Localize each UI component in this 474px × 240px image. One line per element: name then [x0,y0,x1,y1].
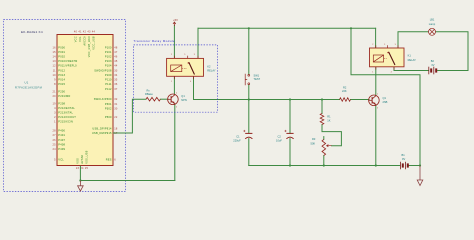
power +5V symbol [173,22,176,26]
wire SW1 column: top rail to switch and to C1 and bottom rail [248,28,250,74]
svg-text:B1: B1 [402,153,406,157]
svg-text:2: 2 [377,94,378,96]
wire top rail down into relay K1 coil+ [375,28,377,48]
svg-text:11: 11 [53,68,56,72]
IC U1 bottom power pins VSS AVSS0 VSS_USB [76,150,89,170]
svg-text:P100: P100 [105,45,112,49]
svg-text:3: 3 [194,54,195,56]
svg-text:25: 25 [53,142,57,146]
svg-text:25: 25 [85,166,89,170]
svg-text:24: 24 [80,166,84,170]
svg-text:P301: P301 [105,102,112,106]
svg-text:22: 22 [114,115,118,119]
svg-text:VSS_USB: VSS_USB [85,150,89,163]
potentiometer R3 50K [322,140,326,156]
svg-text:40: 40 [74,30,78,34]
svg-text:37: 37 [114,87,118,91]
wire C2 column [289,100,291,134]
svg-text:R7FA2E1A92DFM: R7FA2E1A92DFM [15,86,42,90]
svg-text:1: 1 [171,81,172,83]
resistor Rx RBase [146,97,160,101]
IC U1 R7FA2E1A92DFM body [57,35,113,166]
svg-text:SW1: SW1 [254,74,260,78]
svg-text:18: 18 [114,126,118,130]
wire B2 left to relay K1 NO contact [394,67,428,71]
relay K1 pin numbers [372,44,395,74]
svg-text:VCC_USB_LDO: VCC_USB_LDO [87,36,91,57]
svg-text:44: 44 [114,64,118,68]
svg-text:P002: P002 [58,55,65,59]
svg-text:5: 5 [384,44,385,46]
svg-text:P104: P104 [105,64,112,68]
svg-text:2SB: 2SB [383,100,388,104]
svg-text:VCC: VCC [74,36,78,42]
svg-text:47: 47 [114,50,118,54]
node ground junction at MCU [79,179,81,181]
svg-text:23: 23 [76,166,80,170]
svg-text:AVSS0: AVSS0 [80,154,84,163]
svg-text:14: 14 [53,55,57,59]
svg-text:R2: R2 [343,86,347,90]
svg-text:5: 5 [184,54,185,56]
svg-text:P400: P400 [58,129,65,133]
wire pot R3 top stub [323,137,325,140]
svg-text:P201/MD: P201/MD [58,94,70,98]
svg-text:P407: P407 [58,138,65,142]
svg-text:P212/EXTAL: P212/EXTAL [58,106,75,110]
svg-text:P012: P012 [58,68,65,72]
svg-text:P000: P000 [58,45,65,49]
svg-text:P110: P110 [105,78,112,82]
wire top +V rail [198,27,376,29]
module box EK-RA2E1 kit [4,20,126,192]
resistor R2 22K [340,98,351,102]
svg-text:P208: P208 [58,101,65,105]
battery B2 3V [428,67,430,75]
node junction rail/B1/ground [419,164,421,166]
IC U1 top power pins VCC AVCC0 VCC_USB_LDO VCC_USB [74,30,96,58]
svg-text:P409: P409 [58,147,65,151]
IC U1 right pin names and numbers [92,45,118,161]
svg-text:45: 45 [114,59,118,63]
svg-text:Q1: Q1 [181,94,185,98]
svg-text:30: 30 [114,106,118,110]
svg-text:TEST: TEST [254,77,261,81]
svg-text:VSS: VSS [76,158,80,164]
wire Q2 emitter up to relay K1 coil- [375,67,377,96]
svg-text:P500: P500 [105,115,112,119]
svg-text:P111: P111 [105,82,112,86]
svg-text:22K: 22K [342,89,347,93]
svg-text:VCL: VCL [78,36,82,42]
svg-text:20: 20 [53,94,57,98]
svg-text:16: 16 [53,45,57,49]
svg-text:P109: P109 [105,73,112,77]
relay K1 [370,48,405,67]
wire Q1 emitter down [174,105,176,181]
wire R1 bottom to pot wiper [322,125,341,146]
wire battery branch: top rail down, right, down to rail [351,28,420,165]
svg-text:B2: B2 [431,59,435,63]
wire pot R3 bottom to rail [323,156,325,166]
svg-text:220uF: 220uF [233,138,241,142]
svg-text:15: 15 [53,50,57,54]
svg-text:24: 24 [53,147,57,151]
wire R1 branch down from control net [321,100,323,114]
svg-text:P010/VREFH0: P010/VREFH0 [58,59,77,63]
node junction control net / R1 branch [321,98,323,100]
svg-text:43: 43 [87,30,91,34]
switch SW1 TEST push button [245,74,250,85]
svg-text:10: 10 [53,73,57,77]
svg-text:41: 41 [78,30,82,34]
wire Q2 collector down to rail [375,105,377,165]
svg-text:RELAY: RELAY [207,69,216,73]
svg-text:SWDIO/P108: SWDIO/P108 [94,68,112,72]
svg-text:P213/XTAL: P213/XTAL [58,111,73,115]
svg-text:C2: C2 [278,135,282,139]
svg-text:NPN: NPN [181,98,187,102]
svg-text:4: 4 [190,81,191,83]
svg-text:21: 21 [53,89,57,93]
svg-text:1: 1 [372,71,373,73]
svg-text:4: 4 [391,71,392,73]
svg-text:50K: 50K [311,141,316,145]
svg-text:35: 35 [114,78,118,82]
svg-text:LB1: LB1 [430,17,435,21]
svg-text:P408: P408 [58,142,65,146]
svg-text:3: 3 [395,44,396,46]
svg-text:3: 3 [377,108,378,110]
svg-text:P103: P103 [105,59,112,63]
svg-text:P112: P112 [105,87,112,91]
svg-text:RBase: RBase [145,92,153,96]
svg-text:31: 31 [114,102,118,106]
svg-text:10uF: 10uF [276,138,282,142]
wire +5V to relay K2 coil pin [173,26,175,59]
node junction rail/R3 [323,164,325,166]
node junction control net / SW1 column [248,98,250,100]
svg-text:19: 19 [53,101,57,105]
wire MCU ground net: VSS pins down to junction and right to Q1 emitter [80,166,174,180]
svg-text:C1: C1 [236,135,240,139]
svg-text:EK-RA2E1 Kit: EK-RA2E1 Kit [21,30,43,34]
svg-text:AVCC0: AVCC0 [83,36,87,46]
svg-text:P015: P015 [58,82,65,86]
lamp LB1 [429,28,436,35]
svg-text:9V: 9V [402,157,405,161]
svg-text:P401: P401 [58,133,65,137]
svg-text:26: 26 [53,138,57,142]
wire relay K1 common up and right to lamp [398,32,428,48]
wire relay K2 NO contact down and right (control net) [194,76,340,99]
svg-text:P014: P014 [58,78,65,82]
svg-text:R1: R1 [327,114,331,118]
svg-text:3V: 3V [431,63,434,67]
svg-text:P102: P102 [105,55,112,59]
svg-text:K1: K1 [408,53,412,57]
svg-text:P001: P001 [58,50,65,54]
node junction control net / C2 column [289,98,291,100]
transistor Q2 2SB [369,95,380,106]
capacitor C1 220uF [245,132,252,134]
node junction battery branch top [350,27,352,29]
svg-text:2: 2 [372,44,373,46]
relay K2 pin numbers [171,54,195,83]
svg-text:USB_DP/P914: USB_DP/P914 [92,126,112,130]
svg-text:R3: R3 [312,137,316,141]
wire MCU pin P915 to base resistor [113,99,146,133]
svg-text:USB_DM/P915: USB_DM/P915 [92,131,112,135]
ground symbol below MCU [78,181,84,192]
ground symbol bottom right [417,166,423,186]
svg-text:P214/XCOUT: P214/XCOUT [58,115,76,119]
wire RBase to Q1 base [160,98,168,100]
svg-text:P101: P101 [105,50,112,54]
node junction SW1 top [248,27,250,29]
wire relay K2 common pin up to top rail [197,28,199,58]
svg-text:Q1: Q1 [383,96,387,100]
svg-text:28: 28 [53,129,57,133]
svg-text:RELAY: RELAY [408,58,417,62]
svg-text:SWCLK/P300: SWCLK/P300 [94,97,112,101]
transistor Q1 pin marks [176,93,177,109]
svg-text:VCC_USB: VCC_USB [92,36,96,50]
svg-text:34: 34 [114,73,118,77]
wire bottom ground rail [249,165,400,167]
svg-text:P013: P013 [58,73,65,77]
resistor R1 1K [320,114,324,125]
svg-text:U1: U1 [25,81,29,85]
battery B1 9V [399,162,401,170]
svg-text:36: 36 [114,82,118,86]
svg-text:RES: RES [106,157,112,161]
svg-text:Transistor Relay Module: Transistor Relay Module [134,39,176,43]
node junction rail/C2 [289,164,291,166]
node junction rail/Q2 [375,164,377,166]
transistor Q1 NPN in relay module [168,94,179,105]
svg-text:3: 3 [176,107,177,109]
svg-text:+5V: +5V [173,18,178,22]
svg-text:2: 2 [171,54,172,56]
wire lamp right, down, to B2 [436,32,468,71]
svg-text:44: 44 [92,30,96,34]
svg-text:Lamp: Lamp [429,22,436,26]
svg-text:48: 48 [114,45,118,49]
svg-text:P200: P200 [58,89,65,93]
svg-text:46: 46 [114,55,118,59]
svg-text:VCL: VCL [58,157,64,161]
svg-text:2: 2 [176,93,177,95]
svg-text:P011/VREFL0: P011/VREFL0 [58,64,77,68]
svg-text:13: 13 [53,59,57,63]
svg-text:32: 32 [114,97,118,101]
svg-text:27: 27 [53,133,57,137]
svg-text:12: 12 [53,64,57,68]
svg-text:P302: P302 [105,106,112,110]
svg-text:1K: 1K [327,119,330,123]
svg-text:P215/XCIN: P215/XCIN [58,120,73,124]
wire R2 to Q2 base [351,99,370,101]
IC U1 left pin names and numbers [53,45,78,161]
svg-text:K2: K2 [207,64,211,68]
wire relay K2 coil- down to Q1 collector [173,76,175,94]
relay K2 5V relay in module [167,58,204,76]
module box Transistor Relay Module [134,45,218,112]
svg-text:33: 33 [114,68,118,72]
transistor Q2 pin marks [377,94,378,110]
svg-text:42: 42 [83,30,87,34]
capacitor C2 10uF [286,132,293,134]
